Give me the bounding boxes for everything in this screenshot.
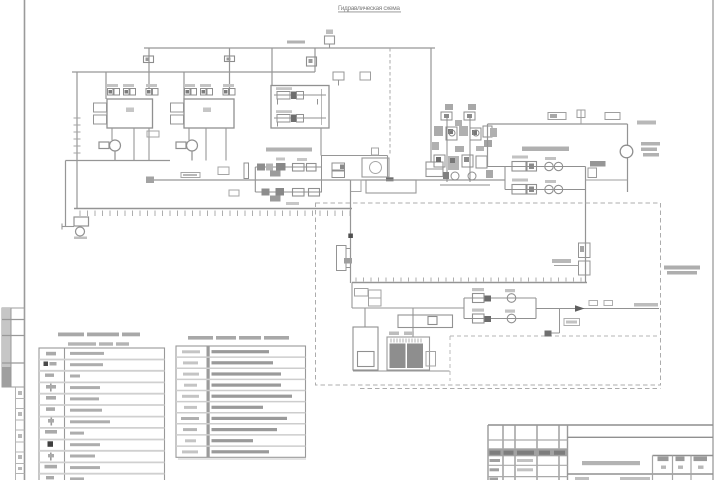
wire top bus [144, 47, 435, 49]
cooler core 2 [407, 344, 423, 369]
legend table 2 shadow [178, 458, 306, 460]
drain label box 1 [589, 301, 598, 306]
left margin stamp B [16, 387, 25, 480]
small box right of cooler [426, 352, 436, 367]
wire drop to valve V1 [148, 48, 150, 88]
dashed inner bottom line [360, 388, 661, 390]
drain text label [634, 303, 658, 307]
small box right of rows [588, 168, 597, 178]
small gauge rect left [244, 163, 249, 179]
legend table 2 designators [181, 350, 200, 453]
hydro panel inner edge [321, 89, 323, 125]
valve block A1 [107, 99, 153, 128]
drain valve pair row 1 [464, 288, 536, 303]
tank hatch ticks [80, 211, 350, 217]
cooler core 1 [390, 344, 406, 369]
pilot section boxes left of A2 [171, 103, 184, 124]
small box T1 [355, 289, 369, 297]
small box on line [218, 167, 229, 175]
left margin stamp A [2, 308, 25, 387]
press unit right edge [627, 124, 629, 192]
label on bus [287, 41, 305, 44]
top edge symbol S1 [548, 113, 566, 120]
wire drop block1 [105, 72, 107, 99]
column box on right drop [426, 162, 443, 177]
legend table 2 divider bar [207, 346, 210, 457]
small box under line [229, 190, 239, 196]
title underline [338, 11, 401, 13]
riser side stub [554, 265, 579, 267]
drain line out [536, 308, 659, 310]
press unit box top edge [488, 123, 628, 125]
svg-text:Гидравлическая схема: Гидравлическая схема [338, 5, 400, 12]
legend table 2 row lines [176, 357, 306, 446]
solenoid pair P4 on A2 [184, 84, 197, 95]
pilot section boxes left of A1 [94, 103, 107, 124]
solenoid pair P5 on A2 [200, 84, 213, 95]
flow arrow [575, 305, 585, 311]
wire drop right column [430, 48, 432, 162]
small box T2 [369, 290, 382, 306]
title block header band [488, 449, 568, 456]
drain valve pair row 2 [464, 309, 536, 324]
check valve C1 [144, 56, 154, 63]
filter housing [353, 327, 378, 370]
wire drop to panel box [271, 48, 273, 86]
gray box on riser [590, 161, 606, 167]
riser component R1 [579, 243, 591, 258]
filter row 1 [255, 158, 322, 177]
cooler labels [389, 332, 399, 336]
bottom partial row marks [575, 477, 650, 480]
wires below block A1 [112, 128, 149, 161]
title block left grid horizontals [488, 440, 568, 477]
document name text [582, 461, 640, 465]
right text block [641, 142, 660, 157]
valve block A2 [184, 99, 234, 128]
panel label [266, 148, 312, 152]
cooler outline [387, 337, 430, 370]
enclosure right label [664, 266, 700, 275]
relief cluster [332, 163, 345, 178]
label right of top edge [637, 121, 656, 125]
riser stub label [552, 259, 571, 263]
cooler fan hatch [391, 339, 421, 343]
check valve C3 [307, 57, 317, 66]
dark plug [545, 331, 552, 337]
breather AT1 [325, 30, 335, 49]
legend table 1 symbols [44, 352, 58, 480]
pump cluster group [432, 104, 497, 185]
dark fitting on line [386, 177, 394, 181]
drain branch down [546, 309, 560, 334]
title block left grid verticals [488, 425, 568, 480]
small box F1 [147, 131, 159, 137]
assembly bottom line [353, 370, 450, 372]
lit masa masshtab labels [658, 457, 708, 462]
label box under drain [564, 319, 580, 326]
fitting left cluster [146, 177, 154, 184]
strainer box [74, 217, 89, 226]
riser component R2 [579, 261, 591, 275]
left grid small texts [490, 459, 534, 480]
wire sub drop [352, 283, 464, 338]
left margin stamp B cell marks [18, 391, 22, 470]
motor box [362, 158, 389, 177]
hydro panel box [271, 86, 329, 129]
wire panel to manifold [321, 128, 388, 180]
dark valve on drop [348, 234, 353, 239]
header band cell texts [490, 451, 566, 455]
tank top line [74, 208, 352, 210]
title block top line [488, 424, 713, 426]
wire rows left link [504, 167, 506, 190]
inner tank ticks [356, 278, 581, 282]
title block right verticals [653, 456, 692, 480]
wire drop V3 [314, 48, 316, 72]
level gauge [337, 246, 353, 271]
aux symbol right [360, 72, 371, 80]
legend table 1 title [58, 333, 140, 337]
filter row 2 [255, 188, 322, 205]
wire left riser [76, 72, 78, 209]
wires below block A2 [189, 128, 226, 161]
wire pair links [464, 298, 536, 319]
gauge G2 [176, 140, 198, 161]
valve block A1 label [126, 108, 134, 113]
gauge G1 [99, 140, 121, 161]
solenoid pair P2 on A1 [123, 84, 136, 95]
pilot line (dashed) [389, 48, 391, 156]
small symbol above center [372, 148, 379, 155]
frame right border [712, 0, 714, 480]
filter rows right link [321, 156, 323, 193]
inner tank line [352, 282, 587, 284]
panel row 1 valve [274, 87, 326, 104]
solenoid pair P1 on A1 [107, 84, 120, 95]
rotary union circle [620, 145, 633, 158]
press unit bottom connector [586, 179, 628, 181]
frame left border [24, 0, 26, 480]
panel row 2 valve [274, 110, 326, 126]
suction stub [62, 224, 74, 230]
motor circle [370, 162, 382, 174]
solenoid pair P6 on A2 [223, 84, 235, 95]
filter rows left link [254, 167, 256, 192]
cell value marks [661, 466, 704, 469]
wire rows right link / return riser [585, 167, 587, 283]
line label box [181, 173, 200, 178]
riser joint ticks [74, 118, 81, 153]
aux symbol above panel [333, 72, 344, 86]
press unit label [522, 147, 569, 152]
legend table 1 texts [70, 352, 110, 480]
legend table 2 title [188, 336, 289, 340]
press unit left edge [487, 124, 489, 167]
small sub box [351, 180, 362, 192]
legend table 2 texts [212, 350, 293, 453]
check valve C2 [225, 56, 235, 62]
valve row A [488, 156, 586, 172]
strainer circle [76, 227, 85, 236]
manifold box [398, 315, 453, 328]
wire drop block2 [183, 72, 185, 99]
top edge symbol S2 [577, 110, 585, 124]
wire center drop [350, 180, 352, 283]
legend table 1 subtitle [68, 342, 129, 345]
wire upper manifold line [72, 71, 315, 73]
legend table 1 frame [39, 348, 165, 480]
wire main pressure line [147, 179, 505, 181]
title block right horizontals [568, 437, 714, 474]
valve block A2 label [203, 108, 211, 113]
wire left down [65, 161, 67, 227]
wire drop to valve V2 [229, 48, 231, 88]
strainer label [74, 237, 87, 240]
valve row B [505, 179, 586, 195]
dashed inner box edge [450, 336, 660, 381]
pump unit box [366, 180, 416, 193]
solenoid pair P3 on A1 [146, 84, 158, 95]
legend table 2 frame [176, 346, 306, 457]
wire lower manifold [66, 160, 171, 162]
top edge symbol S3 [605, 113, 620, 120]
legend table 1 row lines [39, 360, 165, 474]
drain label box 2 [604, 301, 613, 306]
drawing title text [338, 5, 401, 12]
dashed enclosure hydrostation [316, 203, 661, 385]
